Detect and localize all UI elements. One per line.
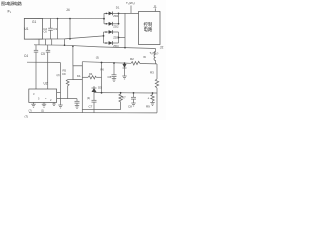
svg-text:G1: G1 [32,20,36,24]
svg-text:D5: D5 [98,86,102,90]
svg-text:C6: C6 [108,75,112,79]
svg-text:电路: 电路 [144,26,153,33]
svg-text:C5: C5 [41,52,45,56]
svg-text:T₁(W₂): T₁(W₂) [150,51,159,55]
svg-text:C6: C6 [44,30,48,34]
svg-text:(2): (2) [57,73,60,77]
svg-text:ZD4: ZD4 [113,44,119,48]
svg-text:R9: R9 [146,105,150,109]
svg-text:(7): (7) [25,115,29,119]
svg-text:R3: R3 [150,71,154,75]
svg-text:T₁(W₁): T₁(W₁) [126,1,135,5]
svg-text:R2: R2 [130,57,134,61]
svg-text:ZD1: ZD1 [113,14,119,18]
svg-text:J4: J4 [66,8,70,12]
svg-text:+: + [148,97,150,101]
svg-text:(7): (7) [29,109,32,113]
svg-text:R4: R4 [89,72,93,76]
svg-text:U1: U1 [25,27,29,31]
svg-text:(3): (3) [96,55,99,59]
svg-text:C3: C3 [53,27,57,31]
svg-text:图1电源电路: 图1电源电路 [1,0,23,7]
svg-text:C9: C9 [62,72,66,76]
svg-text:C8: C8 [128,105,132,109]
svg-text:C7: C7 [89,105,93,109]
svg-text:J2: J2 [160,46,164,50]
svg-text:K1: K1 [77,74,81,78]
svg-text:(1): (1) [41,109,44,113]
svg-text:D1: D1 [116,6,120,10]
svg-text:W: W [143,55,146,59]
svg-text:ZD3: ZD3 [113,36,119,40]
svg-text:R7: R7 [122,96,126,100]
svg-text:(4): (4) [87,96,90,100]
svg-text:R6: R6 [101,68,105,72]
svg-text:U2: U2 [44,82,48,86]
svg-text:C4: C4 [24,54,28,58]
svg-text:ZD2: ZD2 [113,25,119,29]
svg-text:J1: J1 [153,5,157,9]
